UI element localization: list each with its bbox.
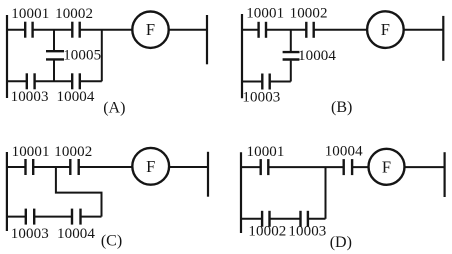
left power rail D bbox=[240, 152, 242, 233]
left power rail A bbox=[6, 15, 8, 98]
coil F (B) bbox=[367, 11, 404, 48]
contact 10005 vertical (A) bbox=[46, 51, 64, 59]
wire A bottom 2 bbox=[35, 80, 73, 82]
wire B top 1 bbox=[242, 29, 259, 31]
wire D top 2 bbox=[268, 166, 343, 168]
svg-text:(A): (A) bbox=[103, 100, 125, 117]
svg-text:10004: 10004 bbox=[325, 144, 363, 160]
wire B top 2 bbox=[266, 29, 306, 31]
contact 10003 (B) bbox=[262, 74, 269, 90]
svg-text:(C): (C) bbox=[101, 232, 122, 249]
svg-text:10002: 10002 bbox=[248, 224, 286, 240]
svg-text:10002: 10002 bbox=[290, 6, 328, 22]
svg-text:10004: 10004 bbox=[298, 48, 336, 64]
wire C bottom 1 bbox=[7, 216, 26, 218]
contact 10001 (A) bbox=[25, 22, 32, 38]
contact 10003 (A) bbox=[27, 73, 35, 89]
svg-text:10005: 10005 bbox=[63, 48, 101, 64]
right power rail B bbox=[442, 16, 444, 61]
svg-text:10001: 10001 bbox=[12, 144, 50, 160]
svg-text:10003: 10003 bbox=[288, 224, 326, 240]
wire B bottom 2 bbox=[270, 81, 291, 83]
wire A bottom 3 bbox=[80, 80, 102, 82]
wire A middle branch upper bbox=[53, 30, 55, 50]
svg-text:10001: 10001 bbox=[11, 6, 49, 22]
wire B coil to rail bbox=[404, 29, 444, 31]
svg-text:10002: 10002 bbox=[55, 6, 93, 22]
contact 10002 (C) bbox=[70, 159, 78, 175]
contact 10004 (D) bbox=[344, 159, 352, 175]
svg-text:10003: 10003 bbox=[11, 89, 49, 105]
wire C coil to rail bbox=[169, 166, 208, 168]
wire C top 1 bbox=[7, 166, 26, 168]
svg-text:F: F bbox=[381, 20, 390, 39]
svg-text:10003: 10003 bbox=[11, 226, 49, 242]
wire C bottom 2 bbox=[34, 216, 72, 218]
contact 10002 (B) bbox=[306, 22, 313, 38]
wire D top 1 bbox=[241, 166, 261, 168]
wire D bottom 3 bbox=[308, 218, 326, 220]
wire D bottom 1 bbox=[241, 218, 262, 220]
contact 10001 (B) bbox=[259, 22, 266, 38]
svg-text:10003: 10003 bbox=[242, 89, 280, 105]
svg-text:10002: 10002 bbox=[54, 144, 92, 160]
contact 10002 (A) bbox=[72, 22, 79, 38]
coil F (A) bbox=[132, 12, 168, 48]
wire A bottom 1 bbox=[7, 80, 27, 82]
wire A top 3 bbox=[80, 29, 133, 31]
wire A top 2 bbox=[33, 29, 73, 31]
contact 10002 (D) bbox=[262, 211, 269, 227]
wire D coil to rail bbox=[405, 166, 445, 168]
wire A coil to rail bbox=[169, 29, 207, 31]
contact 10004 (C) bbox=[72, 209, 81, 225]
wire C step branch bbox=[56, 167, 102, 217]
svg-text:F: F bbox=[146, 20, 155, 39]
right power rail A bbox=[206, 15, 208, 64]
wire C top 3 bbox=[79, 166, 133, 168]
right power rail D bbox=[444, 152, 446, 197]
left power rail C bbox=[6, 152, 8, 231]
contact 10003 (C) bbox=[26, 209, 34, 225]
contact 10001 (D) bbox=[261, 159, 269, 175]
contact 10001 (C) bbox=[26, 159, 34, 175]
wire B bottom 1 bbox=[242, 81, 262, 83]
wire B top 3 bbox=[314, 29, 368, 31]
left power rail B bbox=[241, 14, 243, 98]
wire A top 1 bbox=[7, 29, 25, 31]
svg-text:(B): (B) bbox=[331, 99, 352, 116]
wire D bottom 2 bbox=[270, 218, 301, 220]
svg-text:F: F bbox=[146, 157, 155, 176]
wire D top 3 bbox=[352, 166, 369, 168]
wire A right branch vertical bbox=[101, 30, 103, 82]
coil F (D) bbox=[369, 149, 405, 185]
contact 10004 (A) bbox=[72, 73, 80, 89]
svg-text:10004: 10004 bbox=[57, 89, 95, 105]
contact 10004 vertical (B) bbox=[283, 52, 300, 59]
wire C bottom 3 bbox=[81, 216, 102, 218]
svg-text:10001: 10001 bbox=[247, 144, 285, 160]
wire B middle branch upper bbox=[290, 30, 292, 51]
wire D branch vertical bbox=[325, 167, 327, 219]
svg-text:(D): (D) bbox=[330, 234, 352, 251]
wire C top 2 bbox=[33, 166, 70, 168]
wire B middle branch lower bbox=[290, 61, 292, 82]
right power rail C bbox=[207, 152, 209, 197]
wire A middle branch lower bbox=[53, 61, 55, 82]
svg-text:10001: 10001 bbox=[246, 6, 284, 22]
svg-text:10004: 10004 bbox=[57, 226, 95, 242]
coil F (C) bbox=[132, 148, 169, 185]
contact 10003 (D) bbox=[301, 211, 308, 227]
svg-text:F: F bbox=[382, 157, 391, 176]
